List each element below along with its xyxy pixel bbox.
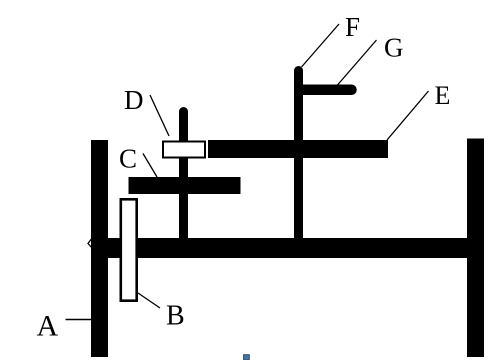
svg-text:C: C <box>119 144 137 174</box>
svg-text:A: A <box>37 310 59 343</box>
leader line E <box>387 91 429 140</box>
leader line B <box>138 293 160 308</box>
leader line G <box>338 40 377 85</box>
svg-text:G: G <box>384 33 404 63</box>
clamp block D (white) <box>163 142 205 158</box>
svg-text:D: D <box>124 85 144 115</box>
leader line A <box>66 319 92 321</box>
leader line D <box>150 95 169 136</box>
leader line C <box>143 154 157 178</box>
left post A <box>91 140 108 357</box>
right post <box>467 139 484 358</box>
bar E <box>208 140 388 158</box>
bar C <box>129 177 241 194</box>
rod D vertical <box>179 107 188 238</box>
svg-text:E: E <box>435 81 451 110</box>
hook loop on left post <box>88 238 93 250</box>
blue handle mark <box>244 355 250 360</box>
svg-text:F: F <box>345 12 360 42</box>
svg-text:B: B <box>166 301 185 332</box>
handle G <box>298 85 357 96</box>
main crossbar <box>91 238 484 258</box>
rod F vertical <box>294 66 303 238</box>
slider B (white) <box>121 199 137 300</box>
leader line F <box>302 24 340 67</box>
